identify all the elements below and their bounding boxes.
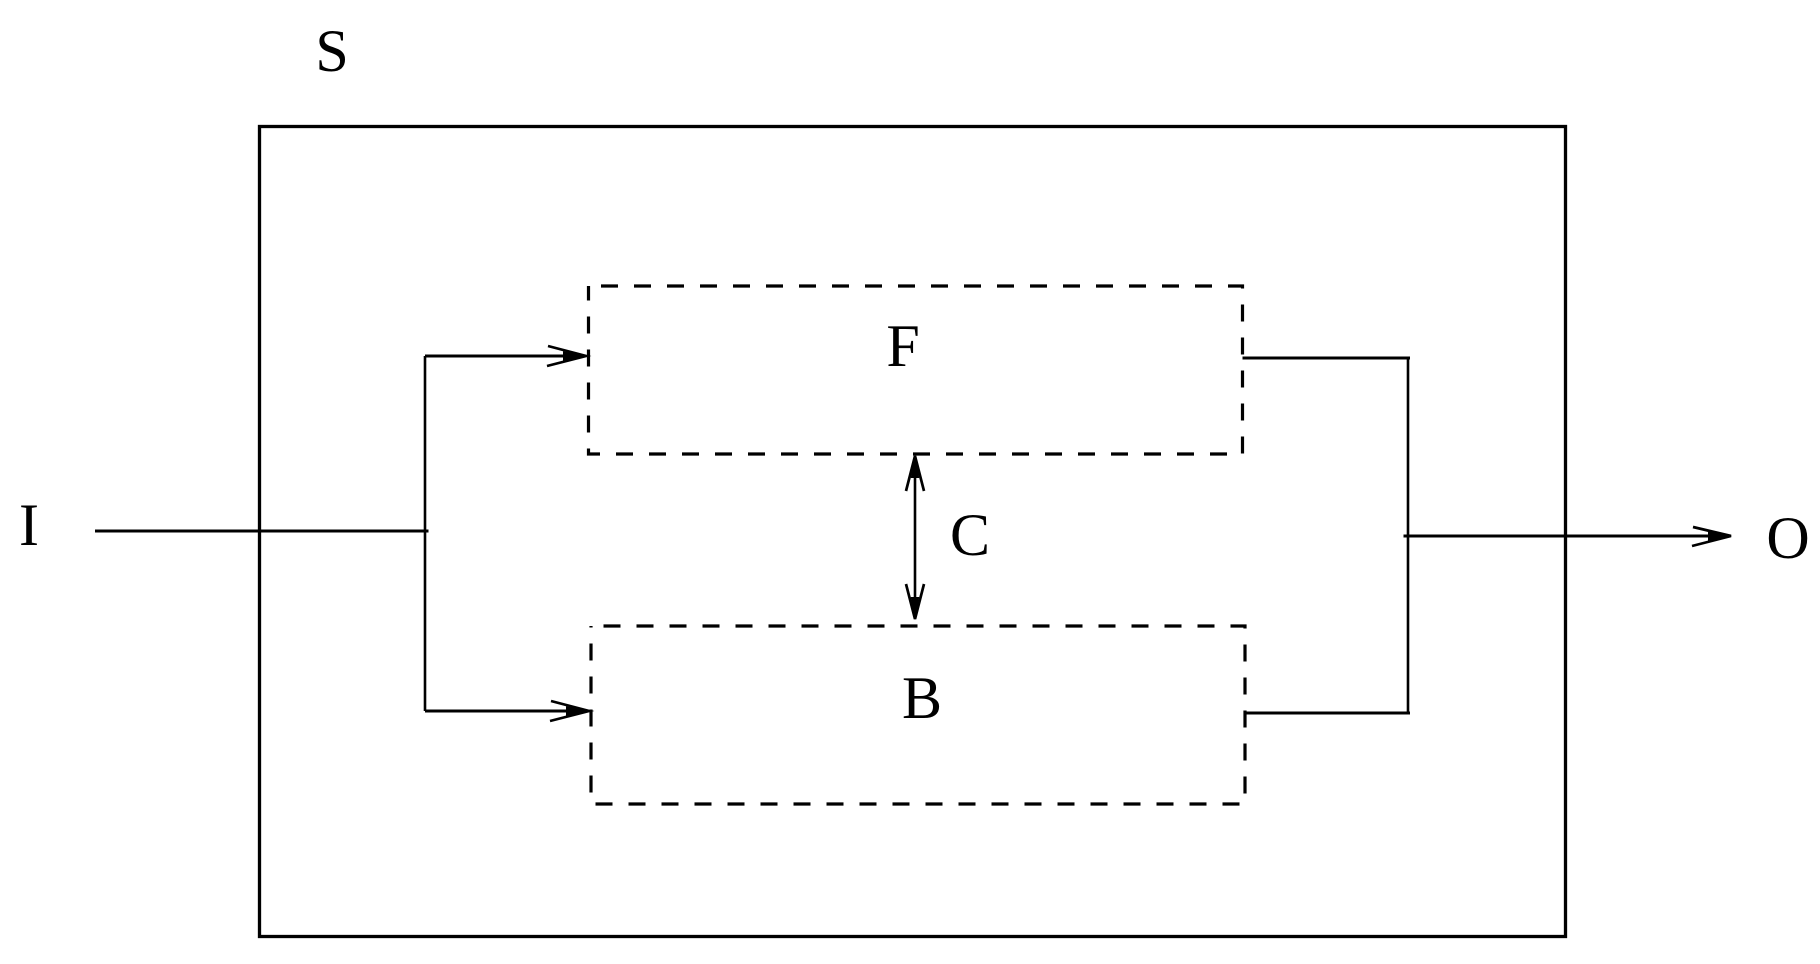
arrowhead down at B: [906, 584, 924, 619]
arrowhead output: [1692, 527, 1731, 546]
wire output O: [1404, 535, 1730, 538]
svg-text:I: I: [19, 492, 39, 558]
wire C double arrow shaft: [914, 458, 917, 617]
svg-text:F: F: [886, 313, 919, 379]
wire arrow to B: [425, 710, 588, 713]
wire arrow to F: [425, 355, 585, 358]
arrowhead into F: [547, 346, 586, 366]
wire branch vertical: [424, 356, 427, 711]
wire B to right connector: [1245, 712, 1410, 715]
arrowhead up at F: [906, 456, 924, 491]
block F dashed box: [589, 286, 1243, 454]
arrowhead into B: [550, 701, 589, 721]
svg-text:C: C: [950, 502, 990, 568]
wire right connector vertical: [1407, 358, 1410, 713]
block B dashed box: [591, 626, 1245, 804]
wire input I: [95, 529, 429, 532]
svg-text:O: O: [1766, 505, 1809, 571]
wire F to right connector: [1243, 357, 1411, 360]
svg-text:B: B: [902, 665, 942, 731]
svg-text:S: S: [315, 18, 348, 84]
system box S: [260, 127, 1566, 937]
